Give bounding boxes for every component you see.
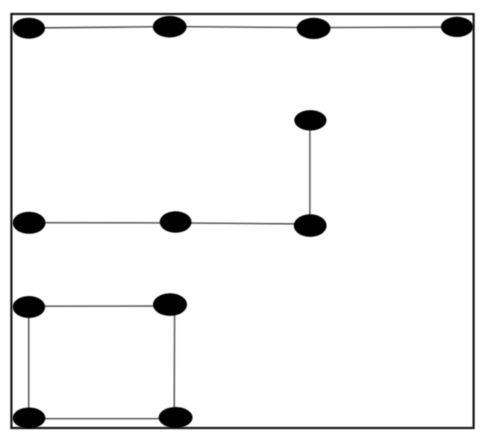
node N11 [13, 408, 46, 429]
node N9 [13, 296, 45, 318]
node N12 [159, 407, 193, 428]
wire middle row N6-N7-N8 [29, 223, 310, 224]
node N2 [153, 16, 187, 38]
node N5 [294, 110, 326, 130]
node N1 [13, 18, 45, 39]
node N10 [153, 293, 187, 316]
node N4 [441, 17, 473, 37]
node N3 [297, 18, 331, 39]
wire top row N1-N2-N3-N4 [29, 27, 457, 28]
node N8 [294, 214, 327, 237]
wire square left N9-N11 [28, 307, 30, 418]
wire square right N10-N12 [173, 305, 175, 417]
node N6 [13, 212, 46, 234]
wire square bottom N11-N12 [29, 418, 176, 420]
node N7 [160, 211, 192, 232]
wire vertical N5-N8 [309, 120, 311, 225]
wire square top N9-N10 [29, 305, 170, 307]
